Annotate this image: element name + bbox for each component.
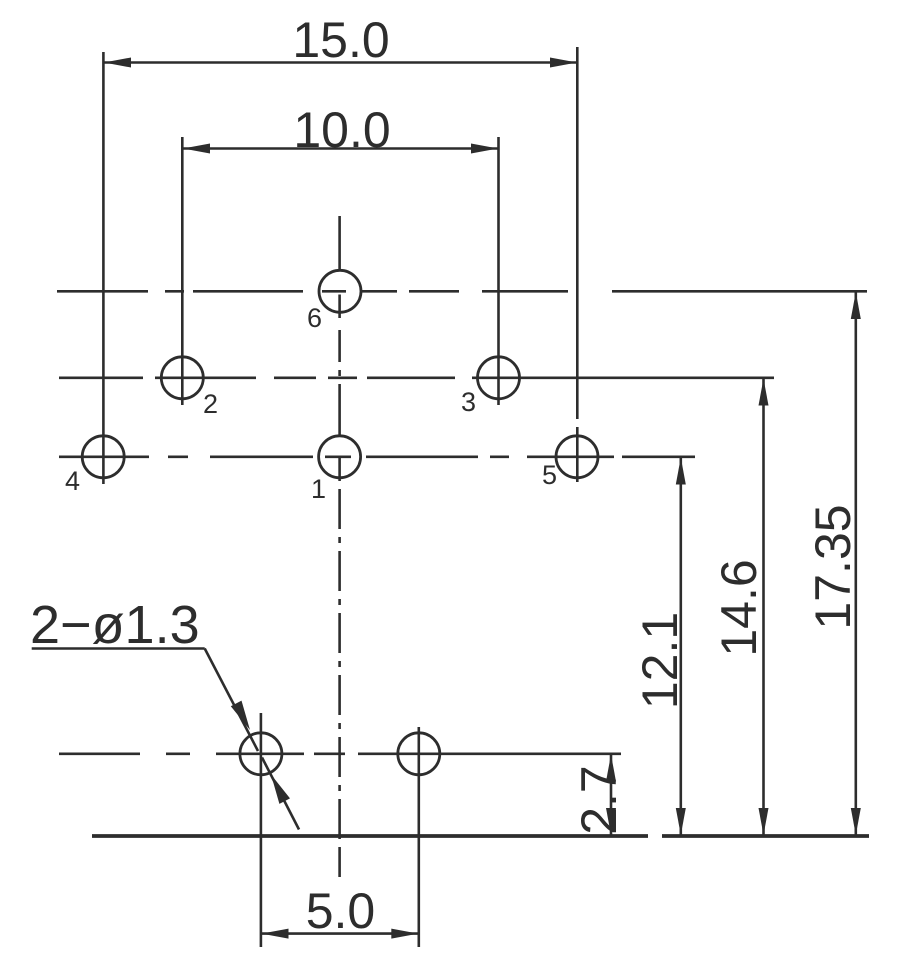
pin 2 circle [161,357,203,399]
extension line left of 10.0 (through pin 2) [181,137,184,405]
svg-text:2: 2 [203,389,218,419]
svg-text:2−ø1.3: 2−ø1.3 [30,595,200,655]
bottom body line [92,834,869,838]
center line row of pin 6 (y=291.3) [57,290,148,293]
dimension line 14.6 [762,379,765,836]
leader line 2-dia1.3 underline [32,649,299,830]
arrow 14.6 down [759,808,769,835]
extension line right of 10.0 (through pin 3) [497,137,500,405]
arrow 12.1 down [676,808,686,835]
arrow 2.7 up [606,755,616,782]
arrow 5.0 left [262,929,289,939]
svg-text:5: 5 [542,460,557,490]
svg-text:14.6: 14.6 [711,559,767,656]
svg-text:17.35: 17.35 [805,504,861,629]
leader arrowheads [231,701,290,804]
svg-text:10.0: 10.0 [293,102,390,158]
pin 1 circle [319,436,361,478]
dimension line 2.7 [610,755,613,836]
pin 4 circle [82,436,124,478]
svg-text:6: 6 [307,303,322,333]
dimension line 12.1 [679,458,682,836]
arrow 17.35 down [851,808,861,835]
arrow 14.6 up [759,379,769,406]
arrow 2.7 down [606,808,616,835]
arrow 10.0 left [183,144,210,154]
arrow 5.0 right [391,929,418,939]
arrow 15.0 left [104,58,131,68]
pin 6 circle [319,270,361,312]
left mounting hole circle [240,733,282,775]
dimension line 5.0 [262,932,419,935]
arrowheads [104,58,861,939]
arrow 15.0 right [550,58,577,68]
arrow 12.1 up [676,458,686,485]
svg-text:1: 1 [311,474,326,504]
center line row of pins 2,3 (y=377.8) [59,376,143,379]
svg-text:5.0: 5.0 [306,883,376,939]
svg-text:12.1: 12.1 [632,612,688,709]
dimension line 10.0 [183,147,498,150]
vertical center line of pins 6,1 (x=339.6) [338,216,341,271]
vertical center line of left mounting hole (x=260.9) [260,713,263,947]
extension line right of 15.0 (through pin 5, upper part) [576,47,579,419]
svg-text:15.0: 15.0 [292,12,389,68]
arrow of 2-dia1.3 leader [231,701,250,730]
arrow 10.0 right [471,144,498,154]
pin 3 circle [478,357,520,399]
center line row of mounting holes (y=753.8) [59,752,140,755]
center line row of pins 4,1,5 (y=456.8) [59,455,149,458]
vertical center line of right mounting hole (x=418.8) [417,727,420,947]
extension line right of 15.0 (through pin 5, lower part) [576,427,579,482]
arrow of lower leader [271,775,290,804]
svg-text:4: 4 [65,466,80,496]
arrow 17.35 up [851,292,861,319]
dimension line 17.35 [854,292,857,835]
right mounting hole circle [398,733,440,775]
svg-text:2.7: 2.7 [571,765,627,835]
leader line from bottom right to left hole [262,758,299,830]
svg-text:3: 3 [461,387,476,417]
dimension line 15.0 [104,61,577,64]
extension line left of 15.0 (through pin 4) [102,52,105,484]
pin 5 circle [556,436,598,478]
